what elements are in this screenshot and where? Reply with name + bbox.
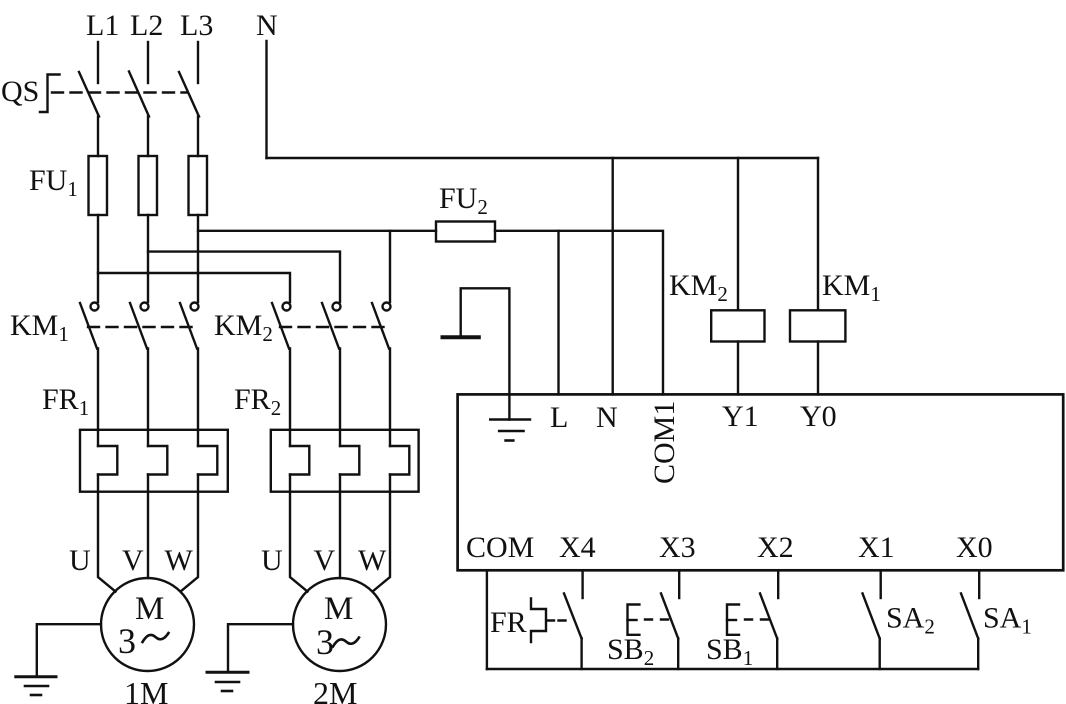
svg-text:FR: FR — [490, 606, 527, 639]
svg-text:N: N — [596, 401, 618, 434]
svg-text:3: 3 — [118, 621, 136, 661]
fuse FU2 body — [436, 222, 495, 242]
thermal relay FR1 box — [80, 430, 228, 492]
svg-text:SB2: SB2 — [607, 633, 654, 670]
svg-text:N: N — [256, 9, 278, 42]
contactor KM1 pole 1 — [91, 303, 99, 311]
wire drop to PLC terminal N — [612, 158, 614, 394]
pushbutton SB1 (X2 input) — [777, 570, 779, 598]
switch QS blade pole 1 — [79, 72, 99, 117]
contactor KM2 dashed link — [280, 326, 389, 328]
contactor KM2 pole 1 — [283, 303, 291, 311]
svg-text:W: W — [358, 544, 387, 577]
switch QS actuator bracket — [40, 75, 60, 113]
wire motor2 ground link — [228, 624, 293, 671]
svg-text:KM2: KM2 — [214, 309, 273, 346]
wire branch L1 horizontal — [98, 273, 290, 302]
wire branch L3 horizontal to FU2 — [198, 230, 436, 232]
svg-text:KM2: KM2 — [669, 269, 728, 306]
wire L2 fuse to contact — [147, 215, 149, 302]
fuse FU1 pole 3 body — [189, 156, 208, 215]
wire L2 to fuse — [147, 117, 149, 157]
thermal relay FR2 heater 3 — [389, 430, 391, 446]
contactor KM2 pole 2 — [333, 303, 341, 311]
svg-text:SA2: SA2 — [886, 602, 935, 639]
svg-text:L1: L1 — [86, 9, 119, 42]
wire L1 drop — [97, 42, 99, 83]
wire bottom common bus — [487, 668, 978, 670]
ground motor2 — [207, 671, 248, 674]
wire COM drop — [486, 570, 488, 669]
fuse FU1 pole 1 body — [89, 156, 108, 215]
thermal relay FR2 heater 1 — [289, 430, 291, 446]
pushbutton SB2 actuator — [628, 605, 640, 635]
svg-text:FU1: FU1 — [29, 164, 78, 201]
svg-text:Y0: Y0 — [800, 400, 837, 433]
svg-text:FR2: FR2 — [234, 383, 281, 420]
wire L1 fuse to contact — [97, 215, 99, 302]
svg-text:L3: L3 — [180, 9, 213, 42]
svg-text:2M: 2M — [313, 675, 357, 704]
wire Y1 drop upper — [737, 158, 739, 310]
svg-text:X3: X3 — [659, 531, 696, 564]
wire motor2 U lead — [290, 475, 308, 592]
svg-text:X0: X0 — [956, 531, 993, 564]
thermal relay FR1 heater 1 — [97, 430, 99, 446]
coil KM1 body — [790, 310, 845, 341]
fuse FU1 pole 2 body — [139, 156, 158, 215]
svg-text:L2: L2 — [130, 9, 163, 42]
switch SA2 (X1 input) — [880, 570, 882, 598]
PLC box — [458, 394, 1064, 570]
switch SA1 (X0 input) — [978, 570, 980, 598]
switch QS blade pole 2 — [129, 72, 149, 117]
contactor KM1 pole 2 — [141, 303, 149, 311]
thermal relay FR1 heater 3 — [197, 430, 199, 446]
svg-text:3: 3 — [316, 622, 334, 662]
ground PLC earth terminal — [490, 418, 530, 421]
thermal relay FR1 heater 2 — [147, 430, 149, 446]
wire L3 to fuse — [197, 117, 199, 157]
svg-text:X1: X1 — [858, 531, 895, 564]
svg-text:SB1: SB1 — [706, 633, 753, 670]
svg-text:X2: X2 — [757, 531, 794, 564]
svg-text:Y1: Y1 — [722, 400, 759, 433]
svg-text:X4: X4 — [559, 531, 596, 564]
wire N drop — [265, 41, 267, 158]
contact FR (X4 input) — [581, 570, 583, 598]
wire motor1 W lead — [181, 475, 199, 592]
svg-text:1M: 1M — [124, 675, 168, 704]
chassis ground bar near PLC — [443, 335, 479, 339]
relay FR actuator bracket — [531, 599, 546, 643]
svg-text:COM1: COM1 — [648, 401, 681, 484]
relay FR dashed link — [547, 619, 568, 621]
svg-text:V: V — [314, 544, 336, 577]
wire drop to PLC terminal L — [557, 231, 559, 395]
wire motor1 V lead — [147, 475, 149, 579]
wire L3 drop — [197, 42, 199, 83]
wire chassis ground to PLC earth — [461, 288, 510, 419]
switch QS blade pole 3 — [179, 72, 199, 117]
wire N horizontal bus — [267, 157, 819, 159]
pushbutton SB2 dashed link — [645, 618, 668, 620]
pushbutton SB1 actuator — [727, 605, 739, 635]
contactor KM2 pole 3 — [383, 303, 391, 311]
svg-text:W: W — [165, 544, 194, 577]
wire motor1 ground link — [37, 624, 101, 675]
svg-text:SA1: SA1 — [983, 602, 1032, 639]
wire Y0 drop lower — [817, 342, 819, 395]
wire motor2 W lead — [373, 475, 391, 592]
motor 2M circle — [293, 578, 386, 671]
switch QS dashed link — [52, 91, 187, 93]
pushbutton SB2 (X3 input) — [678, 570, 680, 598]
contactor KM1 dashed link — [88, 326, 197, 328]
contactor KM1 pole 3 — [191, 303, 199, 311]
thermal relay FR2 heater 2 — [339, 430, 341, 446]
wire FU2 output — [495, 231, 663, 395]
wire motor2 V lead — [339, 475, 341, 579]
ground motor1 — [16, 675, 56, 678]
svg-text:KM1: KM1 — [822, 269, 881, 306]
wire L3 fuse to contact — [197, 215, 199, 302]
wire Y1 drop lower — [737, 342, 739, 395]
wire L2 drop — [147, 42, 149, 83]
svg-text:L: L — [550, 401, 568, 434]
thermal relay FR2 box — [271, 430, 419, 492]
svg-text:U: U — [69, 544, 91, 577]
svg-text:FR1: FR1 — [42, 383, 89, 420]
svg-text:FU2: FU2 — [439, 182, 488, 219]
wire motor1 U lead — [98, 475, 116, 592]
wire drop to KM2 pole 3 — [389, 231, 391, 302]
coil KM2 body — [711, 310, 764, 341]
svg-text:M: M — [135, 591, 164, 627]
motor 2M tilde — [333, 638, 359, 647]
wire branch L2 horizontal — [148, 252, 340, 302]
svg-text:U: U — [261, 544, 283, 577]
svg-text:KM1: KM1 — [10, 309, 69, 346]
svg-text:COM: COM — [466, 531, 534, 564]
svg-text:QS: QS — [1, 75, 39, 108]
wire Y0 drop upper — [817, 158, 819, 310]
motor 1M tilde — [143, 633, 169, 642]
pushbutton SB1 dashed link — [745, 618, 768, 620]
wire L1 to fuse — [97, 117, 99, 157]
svg-text:V: V — [122, 544, 144, 577]
motor 1M circle — [101, 578, 194, 671]
